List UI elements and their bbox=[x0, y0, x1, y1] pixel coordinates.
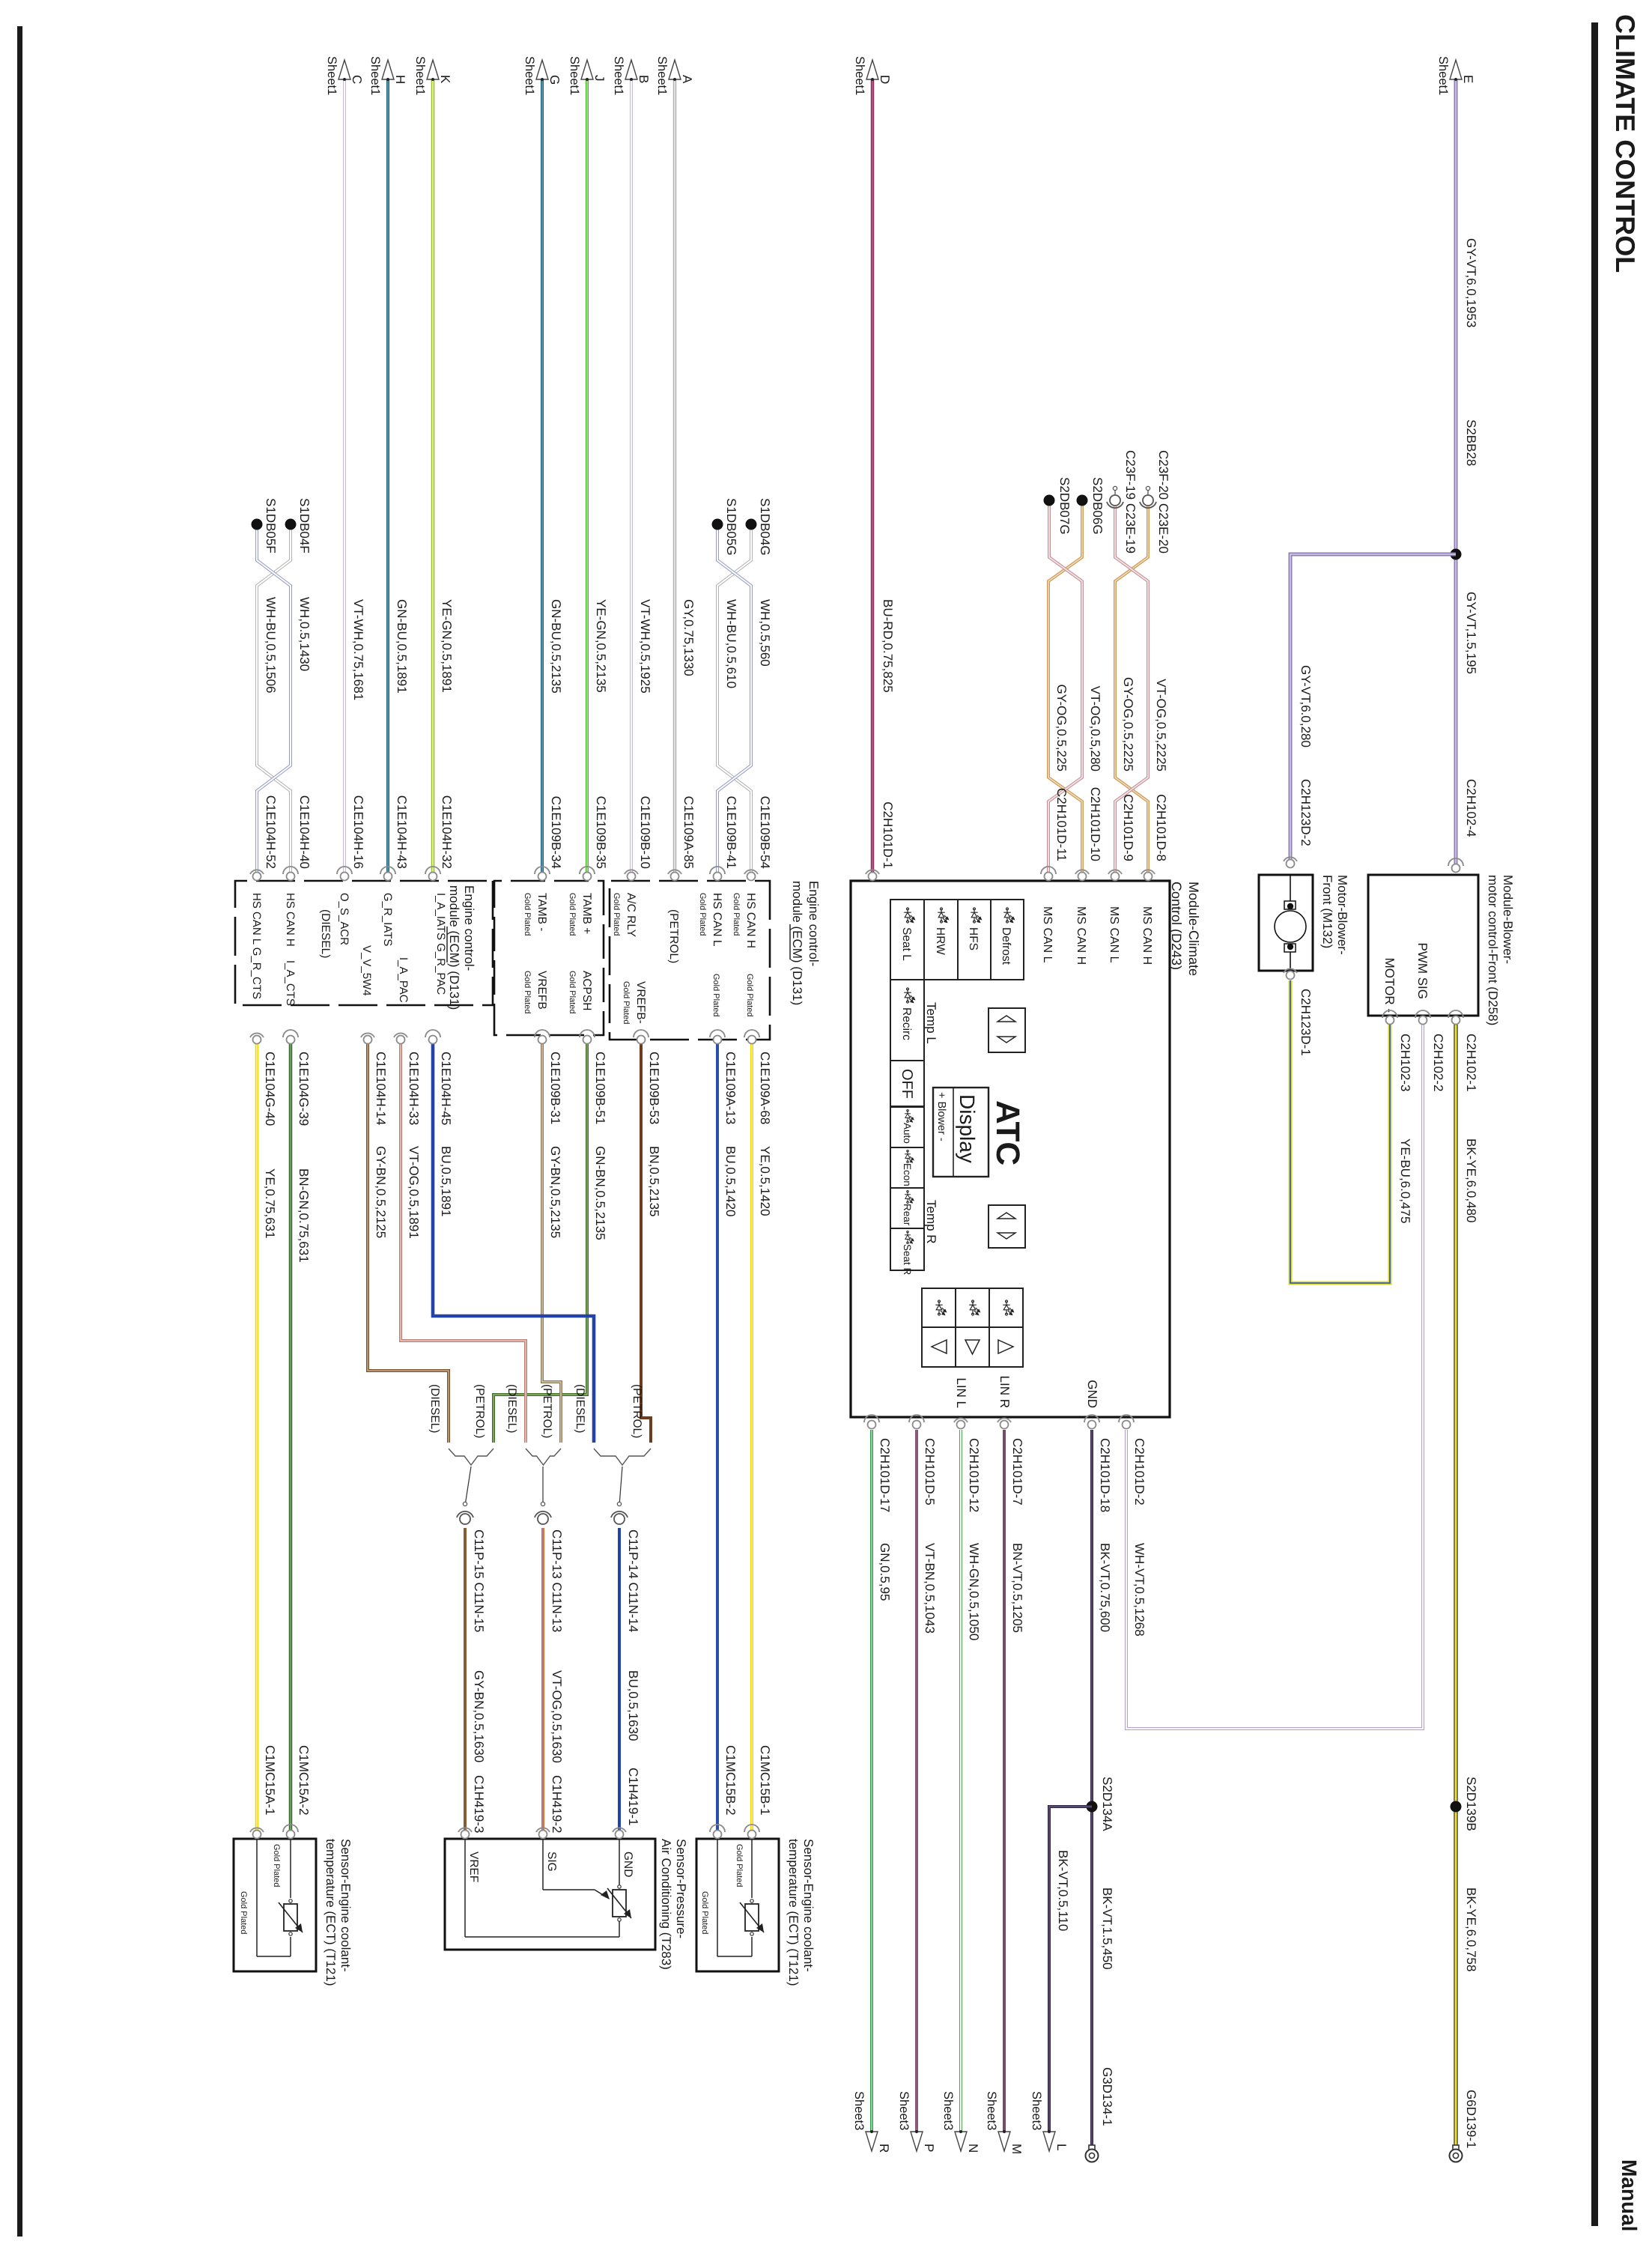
svg-text:I_A_CTS: I_A_CTS bbox=[284, 960, 297, 1006]
svg-text:GND: GND bbox=[622, 1852, 634, 1877]
svg-text:C2H101D-5: C2H101D-5 bbox=[923, 1438, 937, 1505]
svg-text:G6D139-1: G6D139-1 bbox=[1464, 2090, 1478, 2148]
header rule bbox=[1591, 22, 1598, 2226]
svg-text:C1H419-2: C1H419-2 bbox=[550, 1775, 564, 1834]
wire BN-VT,0.5,1205 C2H101D-7 to Sheet3 M bbox=[1003, 1430, 1006, 2132]
svg-text:S2BB28: S2BB28 bbox=[1464, 419, 1478, 466]
splice S1DB05G bbox=[712, 519, 723, 530]
svg-text:G3D134-1: G3D134-1 bbox=[1100, 2067, 1114, 2126]
svg-text:M: M bbox=[1009, 2144, 1024, 2154]
svg-text:Gold Plated: Gold Plated bbox=[239, 1891, 248, 1934]
svg-text:Sheet3: Sheet3 bbox=[1030, 2091, 1043, 2130]
svg-text:C1E104H-43: C1E104H-43 bbox=[395, 795, 409, 869]
D243 button cells Defrost HFS HRW Seat L bbox=[890, 900, 1024, 980]
pin C2H101D-17 bbox=[864, 1415, 879, 1429]
svg-text:motor control-Front (D258): motor control-Front (D258) bbox=[1486, 875, 1500, 1025]
svg-text:Temp R: Temp R bbox=[924, 1200, 938, 1244]
svg-text:C2H101D-12: C2H101D-12 bbox=[967, 1438, 981, 1512]
svg-text:WH,0.5,1430: WH,0.5,1430 bbox=[297, 597, 312, 671]
svg-text:(PETROL): (PETROL) bbox=[667, 909, 680, 963]
wire BK-VT,0.75,600 / BK-VT,1.5,450 bbox=[1090, 1430, 1093, 2147]
svg-text:Sheet1: Sheet1 bbox=[655, 56, 669, 95]
pin C2H101D-9 bbox=[1108, 870, 1122, 880]
svg-text:VREFB-: VREFB- bbox=[634, 981, 647, 1024]
svg-text:C11P-14 C11N-14: C11P-14 C11N-14 bbox=[626, 1529, 640, 1632]
svg-text:WH-BU,0.5,1506: WH-BU,0.5,1506 bbox=[264, 597, 278, 694]
svg-text:R: R bbox=[877, 2144, 891, 2153]
svg-text:Module-Climate: Module-Climate bbox=[1186, 882, 1201, 976]
svg-text:LIN L: LIN L bbox=[954, 1377, 968, 1408]
wire VT-OG,0.5,280 bbox=[1048, 503, 1082, 876]
svg-text:(DIESEL): (DIESEL) bbox=[319, 909, 332, 958]
sheet reference J Sheet1 bbox=[568, 56, 607, 95]
module ECM-A Engine control-module (ECM) (D131) upper box bbox=[610, 881, 770, 1040]
pin C1E109A-13 bbox=[710, 1030, 725, 1044]
svg-text:YE-BU,6.0,475: YE-BU,6.0,475 bbox=[1398, 1138, 1412, 1223]
pin C1MC15A-1 bbox=[250, 1828, 264, 1838]
svg-text:C1E104H-32: C1E104H-32 bbox=[440, 795, 454, 869]
svg-text:C1E104G-40: C1E104G-40 bbox=[263, 1052, 277, 1126]
svg-text:VT-OG,0.5,1891: VT-OG,0.5,1891 bbox=[407, 1146, 421, 1239]
svg-text:C1MC15B-2: C1MC15B-2 bbox=[723, 1745, 738, 1816]
wire WH-VT,0.5,1268 bbox=[1126, 1025, 1423, 1729]
pressure sensor element T283 bbox=[607, 1885, 631, 1921]
svg-text:C2H101D-11: C2H101D-11 bbox=[1054, 788, 1069, 861]
svg-text:C2H101D-2: C2H101D-2 bbox=[1132, 1438, 1147, 1505]
svg-text:N: N bbox=[966, 2144, 980, 2153]
svg-text:S2DB07G: S2DB07G bbox=[1057, 477, 1072, 535]
svg-text:C2H101D-18: C2H101D-18 bbox=[1098, 1438, 1112, 1512]
svg-text:GY-VT,6.0,1953: GY-VT,6.0,1953 bbox=[1464, 238, 1478, 327]
svg-text:Sensor-Engine coolant-: Sensor-Engine coolant- bbox=[801, 1839, 816, 1972]
lead line to C11P-15 bbox=[465, 1467, 471, 1505]
svg-text:Sheet1: Sheet1 bbox=[325, 56, 338, 95]
pin C1E104H-45 bbox=[425, 1030, 440, 1044]
pin C1H419-1 bbox=[613, 1828, 626, 1838]
svg-text:C11P-15 C11N-15: C11P-15 C11N-15 bbox=[472, 1529, 486, 1632]
wire BK-VT,0.5,110 bbox=[1049, 1807, 1092, 2132]
svg-text:MS CAN H: MS CAN H bbox=[1141, 906, 1153, 965]
svg-text:Sheet1: Sheet1 bbox=[523, 56, 536, 95]
D243 button cells Auto Econ Rear Seat R bbox=[890, 1107, 924, 1276]
wire GY-OG,0.5,225 bbox=[1048, 503, 1082, 876]
svg-text:Gold Plated: Gold Plated bbox=[698, 893, 707, 936]
pin C1E104H-40 bbox=[283, 867, 298, 881]
sheet reference R Sheet3 bbox=[852, 2091, 891, 2153]
wire GY-BN,0.5,2125 bbox=[368, 1044, 449, 1443]
sheet reference K Sheet1 bbox=[413, 56, 452, 95]
svg-text:Front (M132): Front (M132) bbox=[1320, 875, 1334, 948]
pin C2H101D-11 bbox=[1041, 867, 1056, 881]
pin C1E109A-85 bbox=[668, 870, 681, 880]
wire VT-OG,0.5,2225 bbox=[1115, 506, 1148, 876]
wire YE-BU,6.0,475 bbox=[1290, 980, 1390, 1283]
inline connector C23F-20 C23E-20 bbox=[1140, 486, 1156, 508]
svg-text:ATC: ATC bbox=[989, 1100, 1026, 1165]
svg-text:H: H bbox=[393, 75, 407, 84]
svg-text:C: C bbox=[350, 75, 364, 84]
svg-text:GY-BN,0.5,1630: GY-BN,0.5,1630 bbox=[472, 1670, 486, 1762]
svg-text:L: L bbox=[1054, 2144, 1069, 2150]
inline connector C23F-19 C23E-19 bbox=[1107, 486, 1123, 508]
sheet reference P Sheet3 bbox=[897, 2091, 936, 2152]
wire GN-BU,0.5,2135 bbox=[541, 79, 544, 876]
pin C1E104G-39 bbox=[283, 1030, 298, 1044]
svg-text:MS CAN H: MS CAN H bbox=[1075, 906, 1087, 965]
svg-text:(DIESEL): (DIESEL) bbox=[574, 1384, 586, 1433]
wire GN,0.5,95 C2H101D-17 to Sheet3 R bbox=[870, 1430, 873, 2132]
svg-text:Gold Plated: Gold Plated bbox=[711, 974, 720, 1016]
svg-text:C1E104H-14: C1E104H-14 bbox=[374, 1052, 388, 1125]
ground ring G3D134-1 bbox=[1086, 2145, 1099, 2162]
svg-text:C2H102-3: C2H102-3 bbox=[1398, 1034, 1412, 1092]
svg-text:C2H101D-17: C2H101D-17 bbox=[878, 1438, 892, 1512]
pin C2H101D-18 bbox=[1084, 1415, 1099, 1429]
pin C2H102-4 bbox=[1448, 858, 1463, 873]
pin C1E109B-34 TAMB- bbox=[535, 867, 550, 881]
D243 button cell OFF bbox=[890, 1061, 924, 1106]
svg-text:S1DB04G: S1DB04G bbox=[758, 498, 772, 556]
wire BU,0.5,1630 bbox=[618, 1528, 621, 1834]
svg-text:C2H123D-1: C2H123D-1 bbox=[1299, 989, 1313, 1056]
pin C2H102-3 bbox=[1382, 1010, 1397, 1025]
svg-text:HS CAN L: HS CAN L bbox=[711, 893, 723, 947]
svg-text:BU,0.5,1420: BU,0.5,1420 bbox=[723, 1146, 738, 1217]
svg-text:Defrost: Defrost bbox=[1000, 927, 1012, 965]
svg-text:GY-VT,6.0,280: GY-VT,6.0,280 bbox=[1299, 665, 1313, 748]
svg-text:C1E109B-35: C1E109B-35 bbox=[594, 796, 608, 869]
svg-text:Gold Plated: Gold Plated bbox=[700, 1891, 709, 1934]
brace C11P-13 group bbox=[526, 1449, 561, 1465]
svg-text:Temp L: Temp L bbox=[924, 1002, 938, 1044]
svg-text:+ Blower -: + Blower - bbox=[935, 1092, 947, 1141]
svg-text:Gold Plated: Gold Plated bbox=[622, 981, 631, 1024]
svg-text:C23F-20 C23E-20: C23F-20 C23E-20 bbox=[1156, 450, 1170, 554]
svg-text:TAMB -: TAMB - bbox=[535, 893, 548, 931]
svg-text:Sensor-Pressure-: Sensor-Pressure- bbox=[674, 1839, 688, 1938]
inline connector C11P-15 C11N-15 bbox=[457, 1502, 473, 1524]
svg-text:GN-BU,0.5,2135: GN-BU,0.5,2135 bbox=[549, 599, 563, 694]
sheet reference G Sheet1 bbox=[523, 56, 562, 95]
svg-text:C2H123D-2: C2H123D-2 bbox=[1299, 779, 1313, 846]
sheet reference L Sheet3 bbox=[1030, 2091, 1069, 2151]
svg-text:HRW: HRW bbox=[934, 927, 947, 955]
sheet reference B Sheet1 bbox=[612, 56, 651, 95]
svg-text:VT-OG,0.5,280: VT-OG,0.5,280 bbox=[1088, 686, 1102, 771]
svg-text:C1E104H-52: C1E104H-52 bbox=[264, 795, 278, 869]
component T283 Sensor-Pressure-Air Conditioning box bbox=[445, 1839, 655, 1950]
lead line to C11P-14 bbox=[619, 1467, 622, 1505]
sheet reference C Sheet1 bbox=[325, 56, 364, 95]
splice S2BB28 bbox=[1451, 549, 1462, 560]
svg-text:C1E109B-34: C1E109B-34 bbox=[549, 796, 563, 869]
svg-text:GY,0.75,1330: GY,0.75,1330 bbox=[681, 599, 696, 676]
pin ECM-A HS CAN L bbox=[710, 867, 725, 881]
svg-text:(DIESEL): (DIESEL) bbox=[428, 1384, 441, 1433]
svg-text:O_S_ACR: O_S_ACR bbox=[338, 893, 350, 945]
svg-text:(PETROL): (PETROL) bbox=[473, 1384, 486, 1438]
svg-text:C1E109B-54: C1E109B-54 bbox=[758, 796, 772, 869]
svg-text:VT-WH,0.5,1925: VT-WH,0.5,1925 bbox=[638, 599, 652, 694]
pin C1E104H-33 bbox=[394, 1033, 407, 1043]
svg-text:Econ: Econ bbox=[902, 1163, 913, 1186]
svg-text:GY-BN,0.5,2125: GY-BN,0.5,2125 bbox=[374, 1146, 388, 1238]
svg-text:Sheet1: Sheet1 bbox=[568, 56, 581, 95]
T121-B internal thermistor bbox=[717, 1839, 752, 1956]
pin C2H101D-5 bbox=[909, 1415, 924, 1429]
svg-text:Sheet1: Sheet1 bbox=[413, 56, 427, 95]
svg-text:C23F-19 C23E-19: C23F-19 C23E-19 bbox=[1123, 450, 1138, 554]
sheet reference M Sheet3 bbox=[985, 2091, 1024, 2154]
svg-text:C2H101D-9: C2H101D-9 bbox=[1121, 794, 1135, 861]
svg-text:SIG: SIG bbox=[545, 1852, 558, 1872]
svg-text:C1E109B-41: C1E109B-41 bbox=[724, 796, 738, 869]
wire WH-BU,0.5,610 bbox=[717, 524, 751, 876]
inline connector C11P-14 C11N-14 bbox=[611, 1502, 628, 1524]
svg-text:C1E109B-53: C1E109B-53 bbox=[647, 1052, 661, 1124]
svg-text:temperature (ECT) (T121): temperature (ECT) (T121) bbox=[324, 1839, 338, 1986]
svg-text:C1MC15B-1: C1MC15B-1 bbox=[758, 1745, 772, 1816]
wire VT-WH,0.75,1681 bbox=[343, 79, 346, 876]
pin C1E104H-52 bbox=[250, 870, 264, 880]
svg-text:CLIMATE CONTROL: CLIMATE CONTROL bbox=[1610, 14, 1641, 273]
wire BU-RD,0.75,825 bbox=[871, 79, 875, 876]
svg-text:Engine control-: Engine control- bbox=[807, 881, 821, 966]
svg-text:C1MC15A-1: C1MC15A-1 bbox=[263, 1745, 277, 1816]
wire WH-BU,0.5,1506 bbox=[257, 524, 291, 876]
D243 button cell Recirc bbox=[890, 980, 924, 1061]
svg-text:C1E104H-45: C1E104H-45 bbox=[439, 1052, 453, 1125]
pin C1E109A-68 bbox=[744, 1030, 759, 1044]
pin C2H123D-2 bbox=[1284, 857, 1297, 867]
pin C1E109B-53 bbox=[634, 1030, 649, 1044]
svg-text:C2H101D-1: C2H101D-1 bbox=[881, 801, 895, 869]
svg-text:Module-Blower-: Module-Blower- bbox=[1501, 875, 1515, 964]
svg-text:module (ECM) (D131): module (ECM) (D131) bbox=[790, 881, 804, 1005]
motor symbol M132 bbox=[1275, 875, 1306, 971]
sheet reference A Sheet1 bbox=[655, 56, 694, 95]
svg-text:S2DB06G: S2DB06G bbox=[1090, 477, 1105, 535]
pin C1H419-3 bbox=[458, 1828, 472, 1838]
splice S2D134A bbox=[1087, 1801, 1098, 1813]
pin C1E109B-31 bbox=[535, 1030, 550, 1044]
wire YE,0.75,631 bbox=[255, 1044, 259, 1834]
svg-text:WH-BU,0.5,610: WH-BU,0.5,610 bbox=[724, 599, 738, 688]
module ECM-C Engine control-module (ECM) (D131) middle bracket bbox=[494, 881, 604, 1035]
svg-text:Sheet3: Sheet3 bbox=[897, 2091, 911, 2130]
svg-text:C2H102-1: C2H102-1 bbox=[1464, 1034, 1478, 1092]
svg-text:BU-RD,0.75,825: BU-RD,0.75,825 bbox=[881, 599, 895, 693]
svg-text:C2H102-4: C2H102-4 bbox=[1464, 779, 1478, 837]
svg-text:BK-VT,1.5,450: BK-VT,1.5,450 bbox=[1100, 1887, 1114, 1970]
wire BK-YE,6.0,480 / BK-YE,6.0,758 C2H102-1 to G6D139-1 bbox=[1454, 1025, 1457, 2148]
T283 internal circuit bbox=[465, 1839, 619, 1937]
pin C1E109B-10 bbox=[625, 870, 638, 880]
wire VT-BN,0.5,1043 C2H101D-5 to Sheet3 P bbox=[915, 1430, 918, 2132]
svg-text:S1DB05G: S1DB05G bbox=[724, 498, 738, 556]
svg-text:C1E104H-40: C1E104H-40 bbox=[297, 795, 312, 869]
svg-text:Gold Plated: Gold Plated bbox=[568, 971, 577, 1013]
wire YE-GN,0.5,2135 bbox=[586, 79, 589, 876]
svg-text:B: B bbox=[637, 75, 651, 83]
pin C1E104H-43 bbox=[380, 867, 395, 881]
svg-text:LIN R: LIN R bbox=[997, 1376, 1012, 1408]
svg-text:BK-YE,6.0,480: BK-YE,6.0,480 bbox=[1464, 1138, 1478, 1222]
thermistor element T121-A bbox=[279, 1899, 303, 1935]
brace C11P-14 group bbox=[594, 1449, 651, 1465]
svg-text:BU,0.5,1891: BU,0.5,1891 bbox=[439, 1146, 453, 1217]
pin C1MC15B-1 bbox=[744, 1825, 759, 1839]
splice S2D139B bbox=[1451, 1801, 1462, 1813]
svg-text:Sheet1: Sheet1 bbox=[368, 56, 382, 95]
svg-text:VT-WH,0.75,1681: VT-WH,0.75,1681 bbox=[351, 599, 365, 700]
svg-text:Display: Display bbox=[956, 1094, 979, 1163]
svg-text:Engine control-: Engine control- bbox=[462, 885, 476, 971]
svg-text:Gold Plated: Gold Plated bbox=[735, 1844, 744, 1887]
svg-text:S1DB04F: S1DB04F bbox=[297, 498, 312, 554]
inline connector C11P-13 C11N-13 bbox=[535, 1502, 551, 1524]
svg-text:VT-BN,0.5,1043: VT-BN,0.5,1043 bbox=[923, 1543, 937, 1634]
wire YE,0.5,1420 bbox=[750, 1044, 753, 1834]
wire BN,0.5,2135 bbox=[641, 1044, 651, 1443]
svg-text:WH,0.5,560: WH,0.5,560 bbox=[758, 599, 772, 667]
pin C1E104H-32 bbox=[425, 867, 440, 881]
svg-text:Gold Plated: Gold Plated bbox=[612, 893, 621, 936]
svg-text:GY-BN,0.5,2135: GY-BN,0.5,2135 bbox=[548, 1146, 562, 1238]
svg-text:Sheet3: Sheet3 bbox=[852, 2091, 866, 2130]
D243 Display box bbox=[933, 1088, 989, 1177]
ground ring G6D139-1 bbox=[1450, 2145, 1463, 2162]
svg-text:MOTOR -: MOTOR - bbox=[1382, 958, 1397, 1013]
svg-text:HS CAN L G_R_CTS: HS CAN L G_R_CTS bbox=[250, 893, 263, 999]
svg-text:D: D bbox=[878, 75, 892, 84]
svg-text:A/C RLY: A/C RLY bbox=[625, 893, 637, 937]
svg-text:C1E109A-13: C1E109A-13 bbox=[723, 1052, 738, 1124]
svg-text:BN-GN,0.75,631: BN-GN,0.75,631 bbox=[297, 1168, 311, 1263]
svg-text:YE,0.5,1420: YE,0.5,1420 bbox=[758, 1146, 772, 1216]
pin C2H101D-12 bbox=[954, 1418, 968, 1428]
svg-text:I_A_IATS G_R_PAC: I_A_IATS G_R_PAC bbox=[434, 893, 447, 995]
svg-text:G_R_IATS: G_R_IATS bbox=[381, 893, 394, 946]
svg-text:GN-BN,0.5,2135: GN-BN,0.5,2135 bbox=[593, 1146, 607, 1240]
pin C1E109B-35 TAMB+ bbox=[580, 867, 595, 881]
svg-text:Gold Plated: Gold Plated bbox=[732, 893, 741, 936]
pin C1MC15B-2 bbox=[710, 1825, 725, 1839]
svg-text:Sheet1: Sheet1 bbox=[853, 56, 866, 95]
svg-text:C1E109B-31: C1E109B-31 bbox=[548, 1052, 562, 1124]
svg-text:YE-GN,0.5,1891: YE-GN,0.5,1891 bbox=[440, 599, 454, 693]
pin C2H101D-7 bbox=[997, 1418, 1011, 1428]
svg-text:C1MC15A-2: C1MC15A-2 bbox=[297, 1745, 311, 1816]
sheet reference N Sheet3 bbox=[941, 2091, 980, 2153]
svg-text:OFF: OFF bbox=[899, 1069, 915, 1099]
svg-text:Sheet1: Sheet1 bbox=[612, 56, 625, 95]
svg-text:E: E bbox=[1461, 75, 1475, 83]
wire BU,0.5,1420 bbox=[716, 1044, 719, 1834]
module D258 Module-Blower-motor control-Front box bbox=[1368, 875, 1478, 1016]
svg-text:Control (D243): Control (D243) bbox=[1169, 882, 1184, 970]
wire WH-GN,0.5,1050 C2H101D-12 to Sheet3 N bbox=[959, 1430, 962, 2132]
sheet reference E Sheet1 bbox=[1436, 56, 1475, 95]
svg-text:C1E109B-10: C1E109B-10 bbox=[638, 796, 652, 869]
svg-text:(PETROL): (PETROL) bbox=[631, 1384, 643, 1438]
wire GY-BN,0.5,2135 bbox=[542, 1044, 561, 1443]
svg-text:YE,0.75,631: YE,0.75,631 bbox=[263, 1168, 277, 1239]
pin C2H101D-2 bbox=[1119, 1415, 1134, 1429]
wire VT-OG,0.5,1891 bbox=[401, 1044, 526, 1443]
svg-text:VREFB: VREFB bbox=[535, 971, 548, 1010]
svg-text:PWM SIG: PWM SIG bbox=[1415, 942, 1430, 999]
wire E GY-VT,6.0,1953 / GY-VT,1.5,195 bbox=[1454, 79, 1458, 864]
wire WH,0.5,1430 bbox=[257, 524, 291, 876]
module D243 Module-Climate Control box bbox=[851, 881, 1170, 1417]
pin ECM-A HS CAN H bbox=[744, 870, 758, 880]
svg-text:GN-BU,0.5,1891: GN-BU,0.5,1891 bbox=[395, 599, 409, 694]
wire GY,0.75,1330 bbox=[673, 79, 677, 876]
svg-text:HS CAN H: HS CAN H bbox=[744, 893, 757, 948]
D243 arrow cells block bbox=[922, 1288, 1023, 1367]
svg-text:BU,0.5,1630: BU,0.5,1630 bbox=[626, 1670, 640, 1741]
brace C11P-15 group bbox=[449, 1449, 494, 1465]
splice S1DB04G bbox=[746, 519, 757, 530]
svg-text:S2D139B: S2D139B bbox=[1464, 1777, 1478, 1831]
svg-text:HS CAN H: HS CAN H bbox=[284, 893, 297, 947]
svg-text:Sheet3: Sheet3 bbox=[941, 2091, 955, 2130]
svg-text:C11P-13 C11N-13: C11P-13 C11N-13 bbox=[550, 1529, 564, 1632]
svg-text:BK-YE,6.0,758: BK-YE,6.0,758 bbox=[1464, 1887, 1478, 1971]
svg-text:WH-VT,0.5,1268: WH-VT,0.5,1268 bbox=[1132, 1543, 1147, 1637]
svg-text:C2H102-2: C2H102-2 bbox=[1431, 1034, 1445, 1092]
svg-text:Recirc: Recirc bbox=[900, 1007, 913, 1040]
splice S2DB07G bbox=[1044, 495, 1055, 506]
pin C1H419-2 bbox=[536, 1828, 550, 1838]
svg-text:GN,0.5,95: GN,0.5,95 bbox=[878, 1543, 892, 1601]
lead line to C11P-13 bbox=[542, 1467, 544, 1505]
svg-text:Rear: Rear bbox=[902, 1204, 913, 1226]
svg-text:G: G bbox=[547, 75, 562, 85]
wire GN-BN,0.5,2135 bbox=[494, 1044, 587, 1443]
wire BN-GN,0.75,631 bbox=[289, 1044, 293, 1834]
svg-text:C2H101D-10: C2H101D-10 bbox=[1088, 787, 1102, 861]
svg-text:C1H419-3: C1H419-3 bbox=[472, 1775, 486, 1834]
svg-text:(DIESEL): (DIESEL) bbox=[505, 1384, 518, 1433]
svg-text:HFS: HFS bbox=[967, 927, 980, 950]
svg-text:VT-OG,0.5,2225: VT-OG,0.5,2225 bbox=[1154, 679, 1168, 771]
svg-text:Manual: Manual bbox=[1618, 2159, 1641, 2231]
splice S1DB04F bbox=[285, 519, 297, 530]
svg-text:VREF: VREF bbox=[467, 1852, 480, 1882]
svg-text:Gold Plated: Gold Plated bbox=[272, 1844, 281, 1887]
pin C1E104H-14 bbox=[361, 1033, 374, 1043]
svg-text:Seat R: Seat R bbox=[902, 1244, 913, 1276]
svg-text:P: P bbox=[922, 2144, 936, 2152]
D243 Temp L control bbox=[924, 1002, 1025, 1052]
svg-text:C1E109A-85: C1E109A-85 bbox=[681, 796, 696, 869]
svg-text:GND: GND bbox=[1085, 1380, 1099, 1408]
pin C2H102-1 bbox=[1448, 1010, 1463, 1025]
svg-text:GY-OG,0.5,225: GY-OG,0.5,225 bbox=[1054, 684, 1069, 771]
svg-text:S1DB05F: S1DB05F bbox=[264, 498, 278, 554]
svg-text:GY-VT,1.5,195: GY-VT,1.5,195 bbox=[1464, 592, 1478, 674]
thermistor element T121-B bbox=[740, 1899, 764, 1935]
svg-text:Sensor-Engine coolant-: Sensor-Engine coolant- bbox=[338, 1839, 353, 1972]
svg-text:BK-VT,0.5,110: BK-VT,0.5,110 bbox=[1056, 1850, 1070, 1931]
component M132 Motor-Blower-Front box bbox=[1259, 875, 1313, 971]
sheet reference D Sheet1 bbox=[853, 56, 892, 95]
svg-text:module (ECM) (D131): module (ECM) (D131) bbox=[447, 885, 461, 1010]
svg-text:BK-VT,0.75,600: BK-VT,0.75,600 bbox=[1098, 1543, 1112, 1632]
svg-text:MS CAN L: MS CAN L bbox=[1108, 906, 1120, 963]
